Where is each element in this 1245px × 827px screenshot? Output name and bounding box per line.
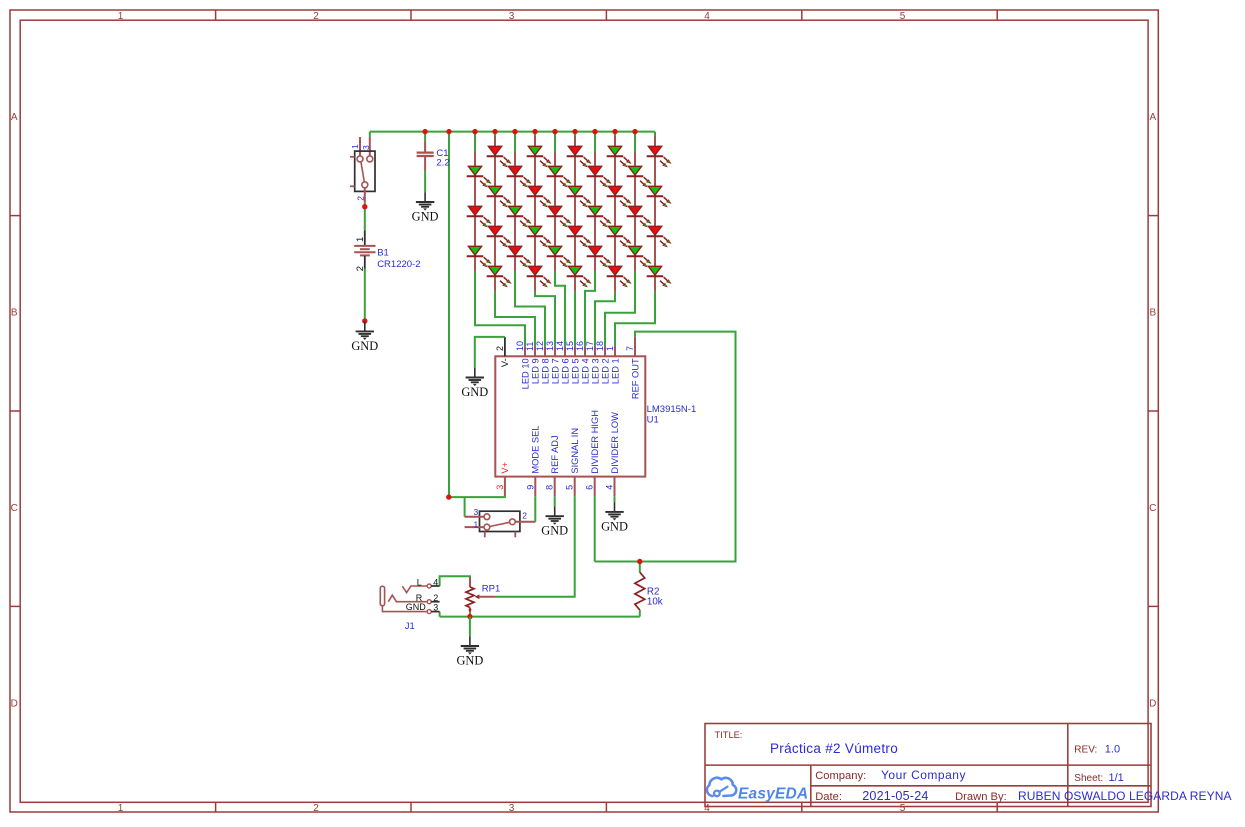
LED column 2 interconnect <box>494 136 496 291</box>
LED D41 (green) <box>527 146 552 167</box>
svg-text:17: 17 <box>585 341 595 351</box>
svg-text:A: A <box>11 112 18 123</box>
LED D93 (green) <box>627 246 652 267</box>
svg-text:L: L <box>417 577 422 587</box>
wire: LED column 3 to U1 pin <box>515 272 545 347</box>
svg-text:3: 3 <box>473 507 478 517</box>
ground symbol (REF ADJ) <box>546 506 564 524</box>
svg-text:Drawn By:: Drawn By: <box>955 791 1007 803</box>
LED D51 (green) <box>547 166 572 187</box>
junction node RP1 ground <box>467 614 472 619</box>
svg-text:4: 4 <box>605 485 615 490</box>
svg-text:2: 2 <box>522 511 527 521</box>
svg-text:GND: GND <box>541 524 568 538</box>
svg-text:14: 14 <box>555 341 565 351</box>
ground symbol (V-) <box>466 368 484 386</box>
wire: branch to mode switch <box>464 497 466 517</box>
wire: MODE SEL to S2 <box>534 496 536 522</box>
op-amp/driver U1 LM3915N-1 body <box>495 356 645 476</box>
svg-text:1: 1 <box>118 11 124 22</box>
junction node rail col 4 <box>532 129 537 134</box>
junction node above B1 ground <box>362 318 367 323</box>
LED column 8 interconnect <box>614 136 616 291</box>
svg-text:GND: GND <box>461 385 488 399</box>
LED D72 (green) <box>587 206 612 227</box>
LED column 4 interconnect <box>534 136 536 291</box>
svg-text:TITLE:: TITLE: <box>715 730 743 740</box>
LED D92 (red) <box>627 206 652 227</box>
svg-text:12: 12 <box>535 341 545 351</box>
svg-text:GND: GND <box>601 519 628 533</box>
LED D53 (green) <box>547 246 572 267</box>
wire: S1 to battery <box>364 203 366 231</box>
svg-text:3: 3 <box>495 485 505 490</box>
LED D103 (red) <box>647 226 672 247</box>
svg-text:LED 4: LED 4 <box>580 358 590 384</box>
svg-text:V+: V+ <box>500 462 510 474</box>
junction node below S1 <box>362 204 367 209</box>
LED D102 (green) <box>647 186 672 207</box>
LED D24 (green) <box>487 266 512 287</box>
U1 bottom pin names <box>500 410 620 474</box>
LED D83 (green) <box>607 226 632 247</box>
wire: V- to GND <box>475 337 505 368</box>
capacitor C1 2.2 <box>417 132 450 171</box>
svg-text:V-: V- <box>500 358 510 367</box>
svg-text:EasyEDA: EasyEDA <box>738 785 808 802</box>
svg-text:18: 18 <box>595 341 605 351</box>
wire: LED column 4 to U1 pin <box>535 292 555 347</box>
wire: rail drop into LED column 6 <box>574 132 576 137</box>
wire: V+ to junction <box>449 496 505 497</box>
svg-text:4: 4 <box>433 577 438 587</box>
svg-text:DIVIDER LOW: DIVIDER LOW <box>610 412 620 474</box>
battery B1 CR1220-2 <box>354 230 420 271</box>
wire: DIVIDER LOW to GND <box>614 496 616 502</box>
svg-text:A: A <box>1149 112 1156 123</box>
U1 pin 7 REF OUT stub <box>634 337 636 356</box>
svg-text:LED 8: LED 8 <box>540 358 550 384</box>
U1 bottom pin stubs <box>504 477 506 497</box>
junction node rail col 7 <box>592 129 597 134</box>
LED column 6 interconnect <box>574 136 576 291</box>
svg-text:5: 5 <box>565 485 575 490</box>
U1 top pin names <box>500 358 640 399</box>
LED D42 (red) <box>527 186 552 207</box>
LED D71 (red) <box>587 166 612 187</box>
audio jack J1 <box>380 577 439 631</box>
svg-text:1: 1 <box>355 237 366 242</box>
svg-text:REV:: REV: <box>1074 744 1097 755</box>
wire: LED column 5 to U1 pin <box>555 272 565 347</box>
svg-text:2: 2 <box>356 196 366 201</box>
svg-text:3: 3 <box>509 803 515 814</box>
wire: REF ADJ to GND <box>554 496 556 506</box>
svg-text:1/1: 1/1 <box>1109 772 1124 784</box>
potentiometer RP1 <box>466 577 500 613</box>
LED column 7 interconnect <box>594 152 596 272</box>
LED column 9 interconnect <box>634 152 636 272</box>
wire: DIVIDER HIGH down <box>594 496 596 561</box>
svg-text:10: 10 <box>515 341 525 351</box>
svg-text:C: C <box>1149 503 1156 514</box>
LED D33 (red) <box>507 246 532 267</box>
svg-text:REF OUT: REF OUT <box>630 358 640 399</box>
LED D104 (green) <box>647 266 672 287</box>
LED D31 (red) <box>507 166 532 187</box>
LED D101 (red) <box>647 146 672 167</box>
U1 top pin numbers <box>495 341 635 351</box>
svg-text:11: 11 <box>525 342 535 351</box>
wire: battery to GND <box>364 269 366 322</box>
svg-text:1: 1 <box>473 519 478 529</box>
junction node rail col 8 <box>612 129 617 134</box>
svg-text:2: 2 <box>313 11 319 22</box>
LED D32 (green) <box>507 206 532 227</box>
svg-text:LED 5: LED 5 <box>570 358 580 384</box>
svg-text:GND: GND <box>412 209 439 223</box>
U1 top LED pin stubs <box>524 346 526 356</box>
svg-text:Sheet:: Sheet: <box>1074 773 1103 784</box>
wire: LED column 2 to U1 pin <box>495 292 535 347</box>
junction node rail col 5 <box>552 129 557 134</box>
svg-text:D: D <box>11 699 18 710</box>
svg-text:9: 9 <box>525 485 535 490</box>
svg-text:8: 8 <box>545 485 555 490</box>
svg-text:2.2: 2.2 <box>436 158 449 169</box>
svg-text:SIGNAL IN: SIGNAL IN <box>570 428 580 474</box>
wire: rail drop into LED column 1 <box>474 132 476 153</box>
LED D21 (red) <box>487 146 512 167</box>
LED D13 (green) <box>467 246 492 267</box>
svg-text:2: 2 <box>313 803 319 814</box>
wire: rail drop into LED column 4 <box>534 132 536 137</box>
svg-text:LED 6: LED 6 <box>560 358 570 384</box>
svg-text:Your Company: Your Company <box>881 768 966 782</box>
LED D44 (red) <box>527 266 552 287</box>
LED D91 (green) <box>627 166 652 187</box>
wire: SIGNAL IN to RP1 wiper <box>496 496 575 597</box>
LED D62 (green) <box>567 186 592 207</box>
svg-text:1: 1 <box>118 803 124 814</box>
svg-text:7: 7 <box>625 346 635 351</box>
switch S2 (mode select) <box>465 507 536 538</box>
wire: top power rail <box>370 131 655 133</box>
LED D11 (green) <box>467 166 492 187</box>
U1 bottom pin numbers <box>495 485 615 490</box>
resistor R2 10k <box>635 562 663 617</box>
junction node rail col 1 <box>472 129 477 134</box>
wire: rail drop into LED column 3 <box>514 132 516 153</box>
svg-text:DIVIDER HIGH: DIVIDER HIGH <box>590 410 600 474</box>
svg-text:B1: B1 <box>377 247 389 258</box>
wire: rail drop into LED column 9 <box>634 132 636 153</box>
junction node R2 top <box>637 559 642 564</box>
wire: rail drop into LED column 2 <box>494 132 496 137</box>
wire: rail to V+ junction drop <box>448 132 450 498</box>
junction node rail col 3 <box>512 129 517 134</box>
LED D82 (red) <box>607 186 632 207</box>
wire: LED column 6 to U1 pin <box>574 292 576 347</box>
svg-text:REF ADJ: REF ADJ <box>550 435 560 473</box>
svg-text:RUBEN OSWALDO LEGARDA REYNA: RUBEN OSWALDO LEGARDA REYNA <box>1018 789 1232 803</box>
wire: rail drop into LED column 8 <box>614 132 616 137</box>
ground symbol (DIVIDER LOW) <box>605 502 623 520</box>
svg-text:B: B <box>1149 308 1156 319</box>
ground symbol (battery) <box>356 322 374 340</box>
svg-text:LED 2: LED 2 <box>600 358 610 384</box>
svg-text:6: 6 <box>585 485 595 490</box>
ground symbol (signal) <box>461 636 479 654</box>
LED column 1 interconnect <box>474 152 476 272</box>
LED D23 (red) <box>487 226 512 247</box>
junction node V+ drop on rail <box>446 129 451 134</box>
LED D84 (red) <box>607 266 632 287</box>
LED D52 (red) <box>547 206 572 227</box>
wire: LED column 10 to U1 pin <box>615 292 655 347</box>
svg-text:GND: GND <box>351 339 378 353</box>
svg-text:5: 5 <box>900 803 906 814</box>
svg-text:3: 3 <box>433 602 438 612</box>
wire: LED column 9 to U1 pin <box>605 272 635 347</box>
svg-text:LED 3: LED 3 <box>590 358 600 384</box>
junction node rail col 9 <box>632 129 637 134</box>
junction node rail col 2 <box>492 129 497 134</box>
svg-text:GND: GND <box>456 653 483 667</box>
svg-text:1.0: 1.0 <box>1105 743 1120 755</box>
svg-text:CR1220-2: CR1220-2 <box>377 259 420 270</box>
svg-text:13: 13 <box>545 341 555 351</box>
wire: REF OUT loop to divider <box>595 332 736 562</box>
svg-text:16: 16 <box>575 341 585 351</box>
svg-text:Práctica #2 Vúmetro: Práctica #2 Vúmetro <box>770 741 898 756</box>
LED column 10 interconnect <box>654 136 656 291</box>
svg-text:3: 3 <box>509 11 515 22</box>
LED D81 (green) <box>607 146 632 167</box>
wire: RP1 bottom / ground bus <box>469 613 471 617</box>
wire: LED column 8 to U1 pin <box>595 292 615 347</box>
LED D73 (red) <box>587 246 612 267</box>
LED D43 (green) <box>527 226 552 247</box>
svg-text:LM3915N-1: LM3915N-1 <box>647 404 697 415</box>
junction node V+ <box>446 494 451 499</box>
svg-text:D: D <box>1149 699 1156 710</box>
LED D22 (green) <box>487 186 512 207</box>
svg-text:LED 7: LED 7 <box>550 358 560 384</box>
wire: rail drop into LED column 10 <box>654 132 656 137</box>
LED column 5 interconnect <box>554 152 556 272</box>
wire: RP1 top to jack L <box>440 576 470 586</box>
LED D64 (green) <box>567 266 592 287</box>
wire: C1 to GND <box>424 171 426 193</box>
svg-text:C: C <box>11 503 18 514</box>
svg-text:1: 1 <box>350 144 360 149</box>
svg-text:MODE SEL: MODE SEL <box>531 426 541 474</box>
ground symbol (C1) <box>416 192 434 210</box>
LED D61 (red) <box>567 146 592 167</box>
title block <box>705 724 1151 807</box>
svg-text:B: B <box>11 308 18 319</box>
svg-text:GND: GND <box>406 602 427 612</box>
svg-text:J1: J1 <box>405 621 415 632</box>
wire: bus drop to GND <box>469 617 471 637</box>
svg-text:3: 3 <box>361 145 371 150</box>
EasyEDA logo <box>707 778 736 796</box>
svg-text:10k: 10k <box>647 597 663 608</box>
svg-text:2: 2 <box>495 346 505 351</box>
junction node C1 on rail <box>422 129 427 134</box>
LED D12 (red) <box>467 206 492 227</box>
LED D63 (red) <box>567 226 592 247</box>
svg-text:4: 4 <box>704 11 710 22</box>
wire: rail drop into LED column 5 <box>554 132 556 153</box>
junction node rail col 6 <box>572 129 577 134</box>
svg-text:U1: U1 <box>647 415 659 426</box>
svg-text:Date:: Date: <box>815 791 842 803</box>
svg-text:1: 1 <box>605 346 615 351</box>
svg-text:2021-05-24: 2021-05-24 <box>862 789 928 803</box>
switch S1 (power) <box>350 132 375 203</box>
title block text <box>715 730 1104 803</box>
LED column 3 interconnect <box>514 152 516 272</box>
svg-text:LED 9: LED 9 <box>530 358 540 384</box>
svg-text:LED 1: LED 1 <box>610 358 620 384</box>
svg-text:RP1: RP1 <box>482 583 500 594</box>
svg-text:LED 10: LED 10 <box>520 358 530 389</box>
wire: rail drop into LED column 7 <box>594 132 596 153</box>
svg-text:15: 15 <box>565 341 575 351</box>
U1 pin 2 V- stub <box>504 337 506 356</box>
wire: LED column 1 to U1 pin <box>475 272 525 347</box>
wire: LED column 7 to U1 pin <box>585 272 595 347</box>
svg-text:Company:: Company: <box>815 770 866 782</box>
svg-text:5: 5 <box>900 11 906 22</box>
